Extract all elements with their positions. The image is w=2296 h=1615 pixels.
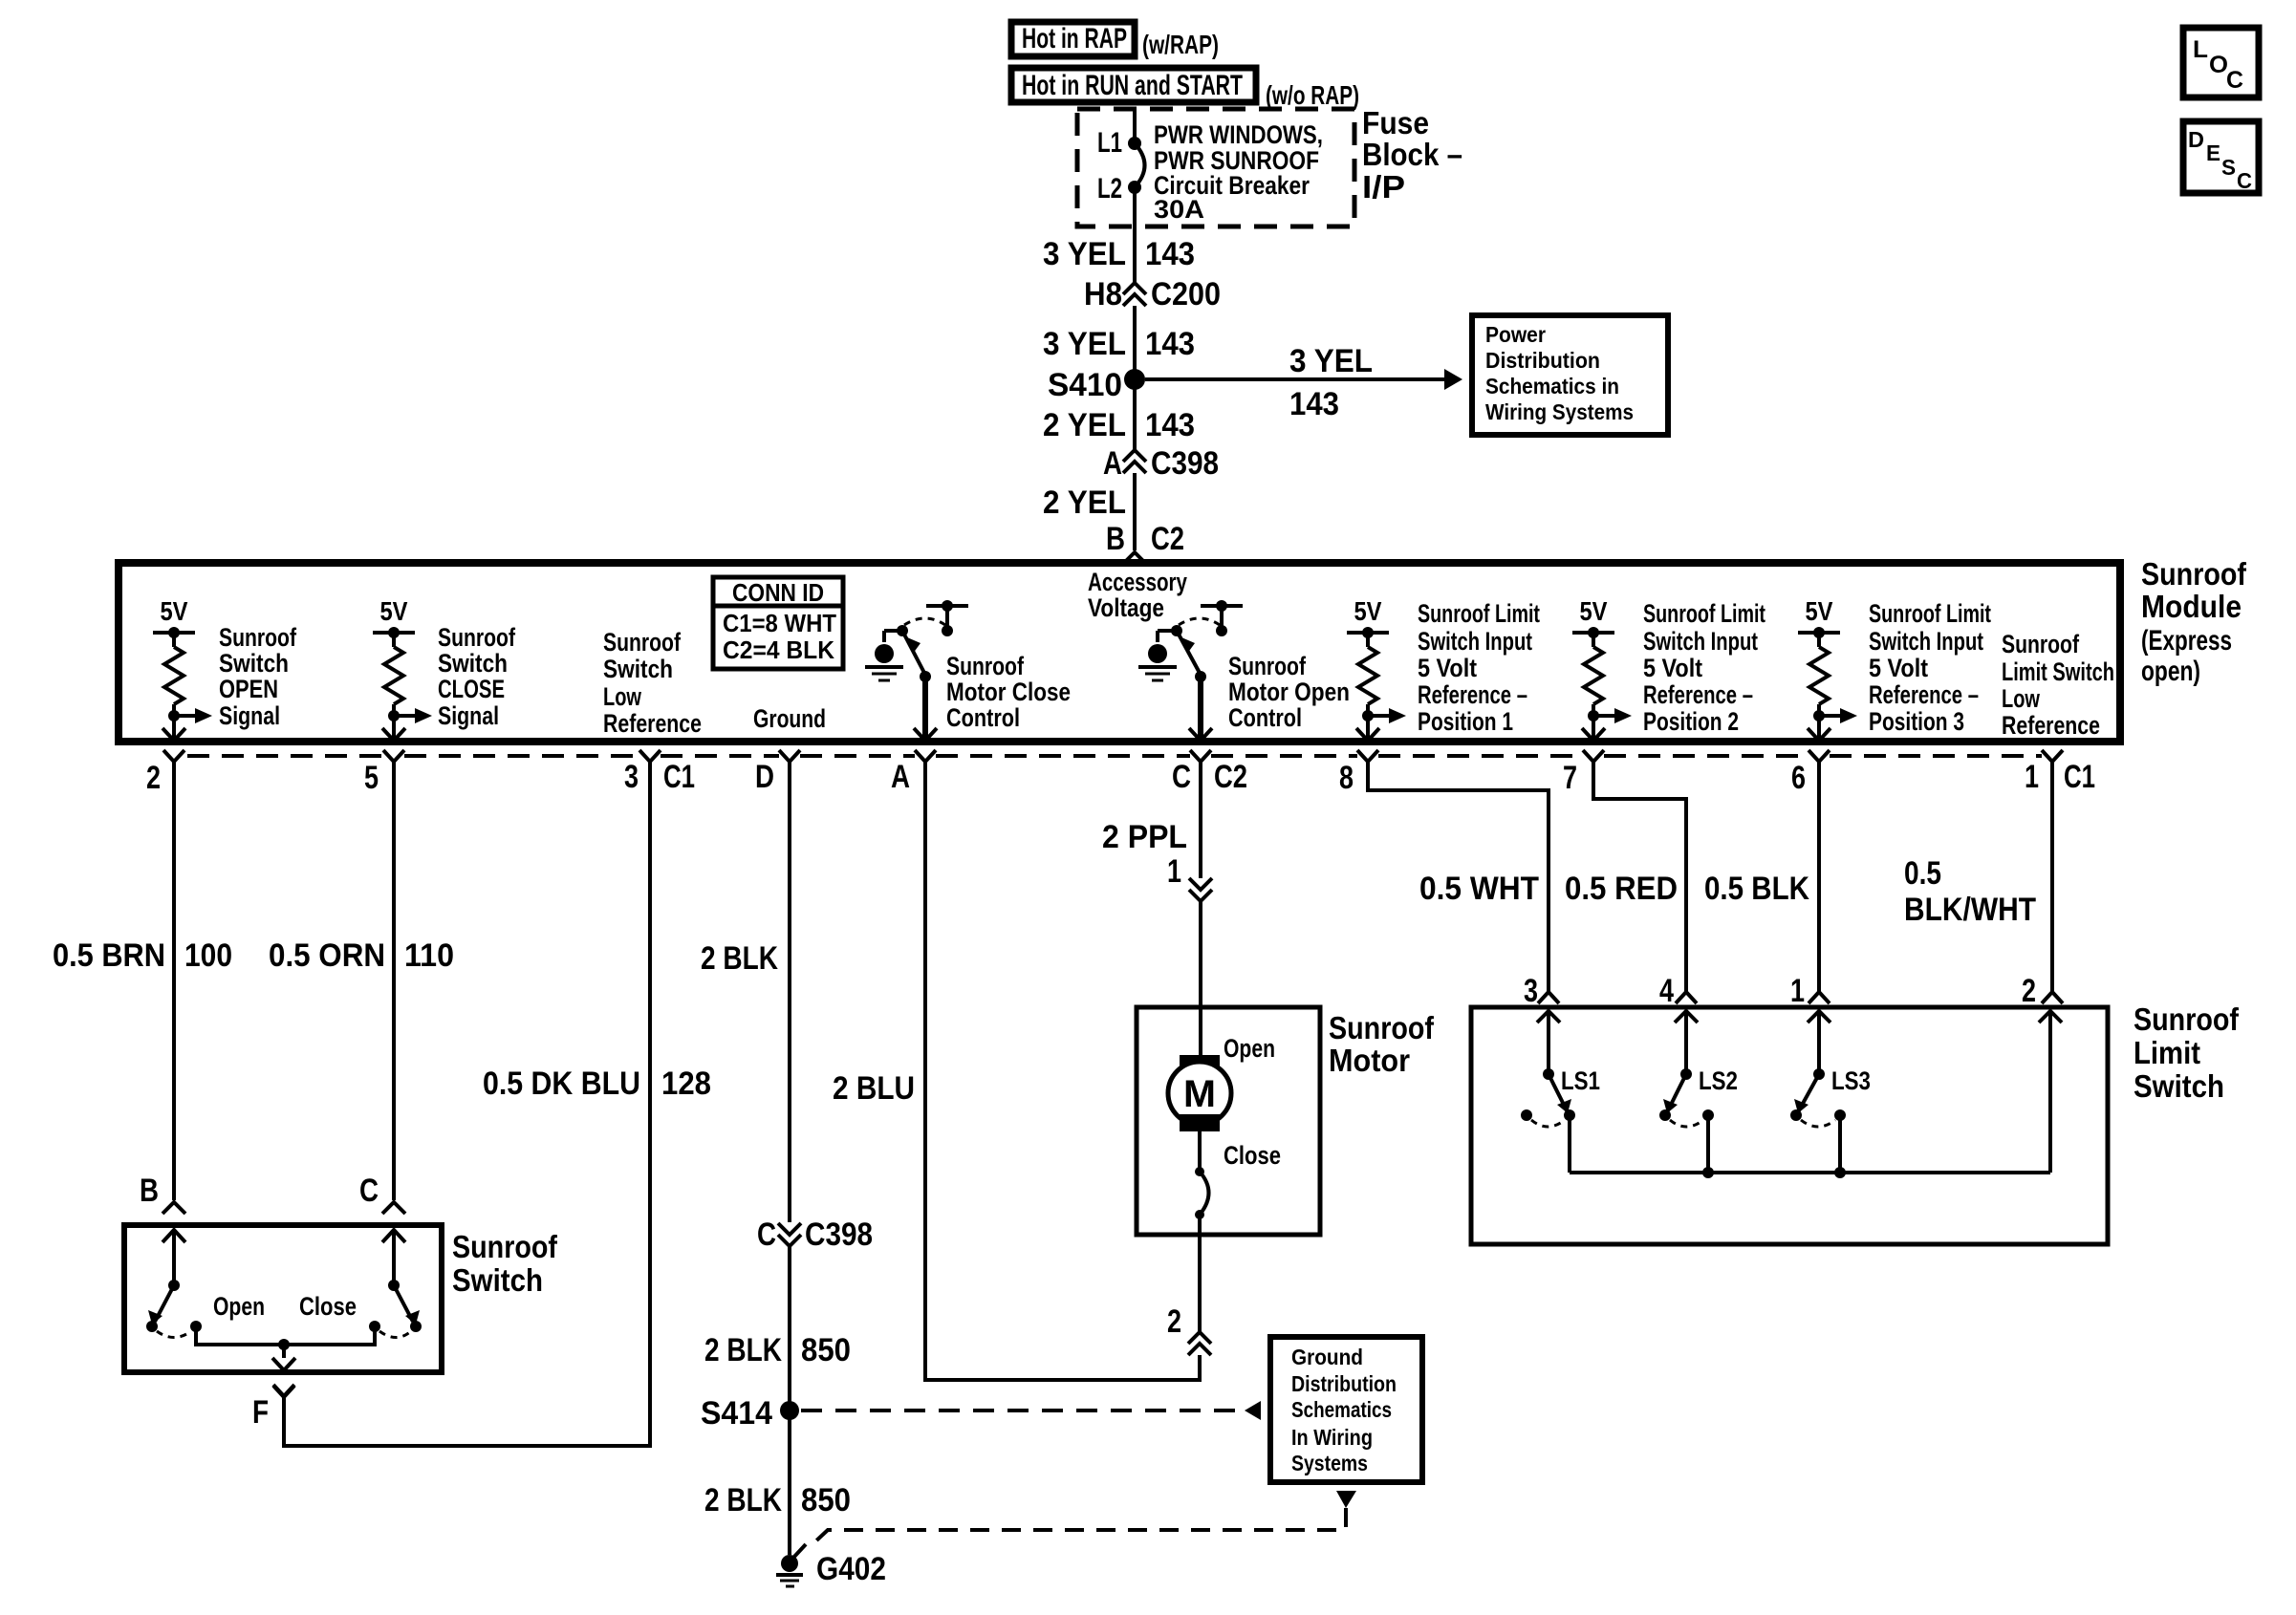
- svg-text:Switch Input: Switch Input: [1643, 627, 1758, 656]
- svg-text:5 Volt: 5 Volt: [1869, 654, 1928, 682]
- svg-text:2 BLK: 2 BLK: [701, 940, 778, 977]
- svg-text:C: C: [2237, 168, 2252, 193]
- svg-text:Low: Low: [603, 682, 642, 711]
- svg-text:B: B: [140, 1173, 159, 1209]
- svg-text:C1=8 WHT: C1=8 WHT: [723, 609, 836, 637]
- svg-text:Sunroof: Sunroof: [1228, 652, 1307, 680]
- svg-text:E: E: [2206, 140, 2220, 165]
- svg-text:Distribution: Distribution: [1291, 1371, 1397, 1396]
- svg-text:Low: Low: [2002, 684, 2041, 713]
- svg-text:Switch: Switch: [2134, 1068, 2224, 1104]
- svg-text:1: 1: [2025, 759, 2039, 795]
- svg-text:143: 143: [1145, 326, 1195, 362]
- svg-text:2 PPL: 2 PPL: [1102, 819, 1187, 855]
- svg-text:Motor Close: Motor Close: [946, 678, 1071, 706]
- svg-text:0.5: 0.5: [1904, 855, 1941, 892]
- svg-text:A: A: [1103, 445, 1122, 482]
- svg-text:Position 2: Position 2: [1643, 707, 1739, 736]
- svg-text:Fuse: Fuse: [1362, 105, 1429, 140]
- svg-text:(Express: (Express: [2141, 625, 2232, 657]
- svg-text:2 BLU: 2 BLU: [833, 1070, 915, 1107]
- svg-text:Switch: Switch: [219, 649, 289, 678]
- svg-text:Switch: Switch: [603, 655, 673, 683]
- svg-text:3 YEL: 3 YEL: [1043, 326, 1126, 362]
- svg-text:Limit: Limit: [2134, 1035, 2200, 1070]
- svg-text:LS1: LS1: [1561, 1066, 1600, 1095]
- svg-text:C200: C200: [1151, 276, 1221, 312]
- svg-text:(w/RAP): (w/RAP): [1142, 30, 1219, 59]
- svg-text:Switch Input: Switch Input: [1869, 627, 1983, 656]
- svg-text:Sunroof Limit: Sunroof Limit: [1643, 599, 1765, 628]
- svg-text:C: C: [2226, 67, 2243, 94]
- svg-text:143: 143: [1145, 407, 1195, 443]
- svg-text:LS2: LS2: [1699, 1066, 1738, 1095]
- svg-text:0.5 RED: 0.5 RED: [1565, 871, 1678, 907]
- svg-text:B: B: [1106, 521, 1125, 557]
- svg-text:In Wiring: In Wiring: [1291, 1425, 1373, 1450]
- svg-text:0.5 BLK: 0.5 BLK: [1704, 871, 1809, 907]
- svg-text:2: 2: [1167, 1303, 1181, 1340]
- svg-text:S410: S410: [1048, 367, 1122, 403]
- svg-text:Ground: Ground: [1291, 1345, 1363, 1369]
- svg-text:Limit Switch: Limit Switch: [2002, 657, 2114, 686]
- svg-text:G402: G402: [816, 1551, 886, 1587]
- svg-text:8: 8: [1339, 760, 1354, 796]
- svg-text:6: 6: [1791, 760, 1806, 796]
- svg-text:Ground: Ground: [753, 704, 826, 733]
- svg-text:Sunroof: Sunroof: [2134, 1001, 2240, 1037]
- svg-text:Control: Control: [1228, 703, 1302, 732]
- svg-text:1: 1: [1790, 973, 1805, 1009]
- svg-text:Signal: Signal: [438, 701, 499, 730]
- svg-text:143: 143: [1145, 236, 1195, 272]
- svg-text:2 YEL: 2 YEL: [1043, 407, 1126, 443]
- svg-text:2: 2: [2022, 973, 2036, 1009]
- svg-text:100: 100: [184, 937, 232, 974]
- svg-text:30A: 30A: [1154, 195, 1204, 224]
- svg-text:Motor: Motor: [1329, 1043, 1410, 1078]
- svg-text:Control: Control: [946, 703, 1020, 732]
- svg-text:Wiring Systems: Wiring Systems: [1485, 399, 1634, 424]
- svg-text:2: 2: [146, 760, 161, 796]
- svg-text:Close: Close: [1224, 1141, 1281, 1170]
- svg-text:5 Volt: 5 Volt: [1418, 654, 1477, 682]
- svg-text:Schematics in: Schematics in: [1485, 374, 1619, 398]
- svg-text:D: D: [755, 759, 774, 795]
- svg-text:3 YEL: 3 YEL: [1043, 236, 1126, 272]
- svg-text:CONN ID: CONN ID: [732, 578, 824, 607]
- svg-text:850: 850: [801, 1482, 851, 1518]
- svg-text:2 BLK: 2 BLK: [704, 1332, 782, 1368]
- svg-text:5V: 5V: [1354, 596, 1382, 626]
- svg-text:3: 3: [624, 759, 639, 795]
- svg-text:5V: 5V: [161, 596, 188, 626]
- svg-text:Accessory: Accessory: [1088, 568, 1187, 596]
- svg-text:Reference –: Reference –: [1643, 680, 1753, 709]
- svg-text:Sunroof: Sunroof: [2002, 630, 2080, 658]
- svg-text:5V: 5V: [1580, 596, 1608, 626]
- svg-text:0.5 DK BLU: 0.5 DK BLU: [483, 1066, 640, 1102]
- svg-text:2 BLK: 2 BLK: [704, 1482, 782, 1518]
- svg-text:Close: Close: [299, 1292, 357, 1321]
- svg-text:Sunroof: Sunroof: [452, 1229, 558, 1264]
- svg-text:Open: Open: [213, 1292, 265, 1321]
- svg-text:Open: Open: [1224, 1034, 1275, 1063]
- svg-text:S414: S414: [701, 1395, 772, 1432]
- svg-text:Signal: Signal: [219, 701, 280, 730]
- svg-text:C398: C398: [1151, 445, 1219, 482]
- svg-text:BLK/WHT: BLK/WHT: [1904, 892, 2036, 928]
- svg-text:C1: C1: [663, 759, 695, 795]
- svg-text:Voltage: Voltage: [1088, 593, 1164, 622]
- svg-text:PWR WINDOWS,: PWR WINDOWS,: [1154, 120, 1323, 149]
- svg-text:C1: C1: [2064, 759, 2095, 795]
- svg-text:1: 1: [1167, 853, 1181, 890]
- svg-text:Switch Input: Switch Input: [1418, 627, 1532, 656]
- svg-text:5V: 5V: [380, 596, 408, 626]
- svg-text:3 YEL: 3 YEL: [1289, 343, 1373, 379]
- svg-text:C2=4 BLK: C2=4 BLK: [723, 635, 834, 664]
- svg-text:C: C: [359, 1173, 379, 1209]
- svg-text:D: D: [2188, 127, 2204, 152]
- svg-text:7: 7: [1563, 760, 1577, 796]
- svg-text:H8: H8: [1084, 276, 1122, 312]
- svg-text:OPEN: OPEN: [219, 675, 278, 703]
- svg-text:LS3: LS3: [1831, 1066, 1871, 1095]
- svg-text:Sunroof: Sunroof: [1329, 1010, 1435, 1045]
- svg-text:L1: L1: [1097, 127, 1122, 159]
- svg-text:5V: 5V: [1806, 596, 1833, 626]
- svg-text:(w/o RAP): (w/o RAP): [1266, 80, 1359, 110]
- svg-text:0.5 ORN: 0.5 ORN: [269, 937, 385, 974]
- svg-text:open): open): [2141, 656, 2200, 687]
- svg-text:Reference –: Reference –: [1418, 680, 1527, 709]
- svg-text:Block –: Block –: [1362, 137, 1462, 172]
- svg-text:5 Volt: 5 Volt: [1643, 654, 1702, 682]
- svg-text:F: F: [252, 1394, 269, 1431]
- svg-text:110: 110: [404, 937, 454, 974]
- svg-text:Hot in RAP: Hot in RAP: [1022, 23, 1127, 54]
- svg-text:L2: L2: [1097, 173, 1122, 205]
- svg-text:Module: Module: [2141, 589, 2242, 624]
- svg-text:5: 5: [364, 760, 379, 796]
- svg-text:Sunroof: Sunroof: [438, 623, 516, 652]
- svg-text:C: C: [1172, 759, 1191, 795]
- svg-text:Motor Open: Motor Open: [1228, 678, 1350, 706]
- svg-text:Systems: Systems: [1291, 1451, 1368, 1475]
- svg-text:Hot in RUN and START: Hot in RUN and START: [1022, 70, 1243, 101]
- svg-text:C2: C2: [1214, 759, 1247, 795]
- svg-text:C2: C2: [1151, 521, 1184, 557]
- svg-text:Sunroof Limit: Sunroof Limit: [1418, 599, 1540, 628]
- svg-text:850: 850: [801, 1332, 851, 1368]
- svg-text:Sunroof: Sunroof: [946, 652, 1025, 680]
- svg-text:Switch: Switch: [452, 1262, 543, 1298]
- svg-text:Switch: Switch: [438, 649, 508, 678]
- svg-text:Schematics: Schematics: [1291, 1397, 1392, 1422]
- svg-text:CLOSE: CLOSE: [438, 675, 505, 703]
- svg-text:3: 3: [1524, 973, 1538, 1009]
- svg-text:O: O: [2209, 52, 2228, 78]
- svg-text:4: 4: [1659, 973, 1674, 1009]
- svg-text:Distribution: Distribution: [1485, 348, 1600, 373]
- svg-text:143: 143: [1289, 386, 1339, 422]
- svg-text:128: 128: [661, 1066, 711, 1102]
- svg-text:Power: Power: [1485, 322, 1546, 347]
- svg-text:0.5 BRN: 0.5 BRN: [53, 937, 165, 974]
- svg-text:Reference: Reference: [2002, 711, 2100, 740]
- svg-text:Sunroof Limit: Sunroof Limit: [1869, 599, 1991, 628]
- svg-text:Position 1: Position 1: [1418, 707, 1513, 736]
- svg-text:A: A: [891, 759, 910, 795]
- svg-text:M: M: [1183, 1073, 1216, 1115]
- svg-text:S: S: [2221, 155, 2236, 180]
- svg-text:Position 3: Position 3: [1869, 707, 1964, 736]
- svg-text:Reference –: Reference –: [1869, 680, 1979, 709]
- svg-text:I/P: I/P: [1362, 169, 1405, 205]
- svg-text:C398: C398: [805, 1217, 873, 1253]
- svg-text:L: L: [2193, 36, 2208, 63]
- svg-text:Sunroof: Sunroof: [2141, 556, 2247, 592]
- svg-text:2 YEL: 2 YEL: [1043, 484, 1126, 521]
- svg-text:0.5 WHT: 0.5 WHT: [1419, 871, 1539, 907]
- svg-text:Sunroof: Sunroof: [219, 623, 297, 652]
- svg-text:Sunroof: Sunroof: [603, 628, 682, 657]
- svg-text:C: C: [757, 1217, 776, 1253]
- svg-text:Reference: Reference: [603, 709, 702, 738]
